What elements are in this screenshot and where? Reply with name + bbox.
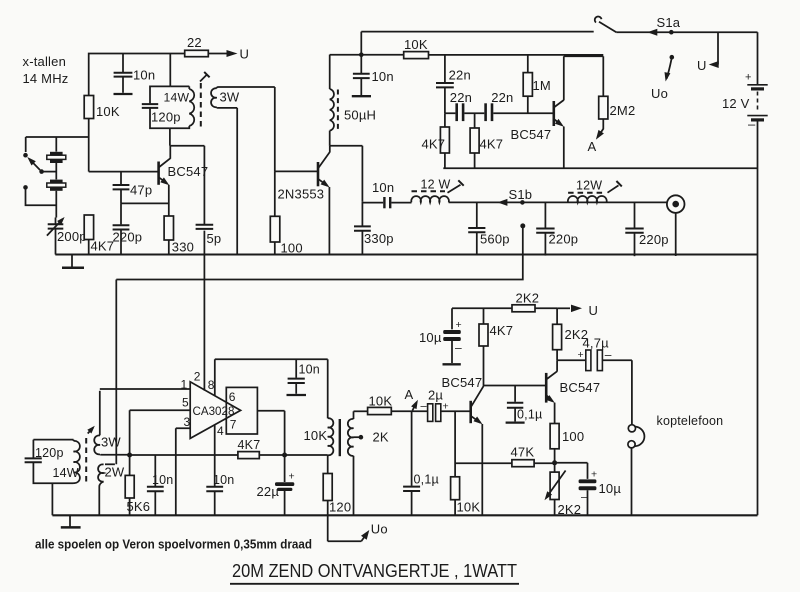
svg-text:2K2: 2K2 xyxy=(516,291,540,306)
wire pin5 line xyxy=(130,410,191,455)
svg-text:560p: 560p xyxy=(480,232,510,247)
capacitor 0,1µ (interstage) xyxy=(506,386,543,423)
svg-text:220p: 220p xyxy=(549,232,579,247)
wire to U arrow xyxy=(208,53,227,55)
resistor 5K6 xyxy=(125,455,150,515)
svg-text:10µ: 10µ xyxy=(599,481,622,496)
inductor 12W (filter 2) xyxy=(568,179,622,203)
svg-text:alle spoelen op Veron spoelvor: alle spoelen op Veron spoelvormen 0,35mm… xyxy=(35,537,312,552)
capacitor 22n (first) xyxy=(436,55,471,113)
svg-text:10n: 10n xyxy=(372,69,394,84)
node switch contact upper xyxy=(23,153,28,158)
svg-text:14W: 14W xyxy=(164,91,190,105)
svg-text:3: 3 xyxy=(184,415,191,429)
svg-text:CA3028: CA3028 xyxy=(193,405,235,418)
svg-text:1: 1 xyxy=(181,378,188,392)
capacitor 10µ electrolytic (rail) xyxy=(419,308,462,364)
svg-text:4K7: 4K7 xyxy=(480,137,504,152)
wire crystal top link xyxy=(26,137,89,152)
capacitor 220p (filter 1) xyxy=(536,202,578,255)
svg-text:22: 22 xyxy=(187,35,202,50)
resistor 120 xyxy=(323,455,351,541)
svg-text:Uo: Uo xyxy=(651,86,668,101)
wire 4K7 to ground xyxy=(88,240,90,255)
svg-text:A: A xyxy=(405,387,414,402)
svg-text:10n: 10n xyxy=(213,473,234,487)
antenna connector xyxy=(667,195,685,256)
svg-text:10K: 10K xyxy=(304,428,328,443)
wire tank feed top xyxy=(169,54,171,87)
svg-text:47K: 47K xyxy=(511,445,535,460)
node emitter junction xyxy=(552,460,557,465)
svg-text:120: 120 xyxy=(329,500,351,515)
svg-text:BC547: BC547 xyxy=(560,380,601,395)
transformer T1 primary 10K side xyxy=(304,359,334,455)
node output junction xyxy=(282,453,287,458)
svg-text:U: U xyxy=(697,58,707,73)
capacitor 10n (pin4) xyxy=(206,473,234,515)
svg-text:10n: 10n xyxy=(152,473,173,487)
svg-text:120p: 120p xyxy=(151,110,181,125)
resistor 4K7 (osc bias lower) xyxy=(84,215,114,254)
wire 3W bottom to ground xyxy=(236,108,238,255)
wire crystal bottom xyxy=(55,191,57,218)
svg-text:220p: 220p xyxy=(113,230,143,245)
svg-text:2M2: 2M2 xyxy=(610,103,636,118)
wire pin8 line xyxy=(215,359,328,396)
svg-text:+: + xyxy=(456,319,462,331)
wire keyer node line xyxy=(445,112,554,114)
svg-text:20M ZEND ONTVANGERTJE , 1WAT: 20M ZEND ONTVANGERTJE , 1WATT xyxy=(232,560,517,581)
resistor 100 (PA base) xyxy=(270,216,302,255)
capacitor 10n (RX agc) xyxy=(147,455,174,515)
resistor 2K2 variable (volume) xyxy=(545,463,582,517)
capacitor 22µ electrolytic xyxy=(257,455,295,515)
tank coil 14W with 120p (oscillator) xyxy=(142,86,194,145)
svg-text:S1b: S1b xyxy=(509,187,533,202)
svg-text:5: 5 xyxy=(182,396,189,410)
svg-text:120p: 120p xyxy=(35,446,64,460)
wire 330 to ground xyxy=(168,240,170,255)
resistor 10K (audio bias) xyxy=(451,411,481,515)
wire U branch (TX supply) xyxy=(697,32,719,73)
wire keyer collector top xyxy=(564,55,604,57)
inductor 12W (filter 1) xyxy=(411,178,463,203)
svg-text:12 V: 12 V xyxy=(722,96,750,111)
ground (RX rail symbol) xyxy=(61,515,81,527)
svg-text:12W: 12W xyxy=(576,179,602,193)
svg-text:U: U xyxy=(240,47,250,62)
resistor 4K7 (keyer left) xyxy=(422,113,450,168)
svg-text:220p: 220p xyxy=(639,232,669,247)
transistor Q3 BC547 (keyer) xyxy=(511,56,564,168)
node A (audio) xyxy=(405,387,418,411)
svg-text:BC547: BC547 xyxy=(442,375,483,390)
svg-text:8: 8 xyxy=(208,378,215,392)
pin labels CA3028 xyxy=(181,370,225,438)
wire audio interstage xyxy=(484,385,547,387)
wire 10K to base node xyxy=(88,119,90,172)
svg-text:22n: 22n xyxy=(449,68,471,83)
coil 2W (receiver) xyxy=(98,464,125,515)
svg-text:A: A xyxy=(588,139,597,154)
capacitor 10n (pin8 bypass) xyxy=(287,359,320,395)
wire audio rail xyxy=(452,307,557,309)
svg-text:7: 7 xyxy=(230,418,237,432)
capacitor 200p variable xyxy=(47,217,87,255)
wire 2µ to base xyxy=(441,410,471,412)
svg-text:2W: 2W xyxy=(105,465,125,480)
svg-text:5p: 5p xyxy=(207,231,222,246)
resistor 100 (output emitter) xyxy=(550,424,584,463)
svg-text:BC547: BC547 xyxy=(168,164,209,179)
svg-text:50µH: 50µH xyxy=(344,108,376,123)
svg-text:100: 100 xyxy=(562,429,584,444)
capacitor 47p (feedback) xyxy=(113,172,153,204)
resistor 10K (detector out) xyxy=(354,394,428,415)
text x-tallen 14 MHz xyxy=(23,54,69,86)
svg-text:5K6: 5K6 xyxy=(127,499,151,514)
svg-text:+: + xyxy=(591,469,597,481)
svg-text:10n: 10n xyxy=(133,68,155,83)
wire keyer rail xyxy=(429,54,604,56)
wire pin1 line xyxy=(100,388,190,390)
svg-text:330: 330 xyxy=(172,240,194,255)
svg-text:2K: 2K xyxy=(373,430,389,445)
svg-text:6: 6 xyxy=(229,390,236,404)
svg-text:1M: 1M xyxy=(533,78,551,93)
wire collector node out xyxy=(557,359,585,361)
wire 10n decoupling stub xyxy=(122,54,124,73)
wire pin2 line (osc injection via 5p) xyxy=(203,231,205,391)
headphone jack (koptelefoon) xyxy=(628,414,723,515)
svg-text:–: – xyxy=(455,341,462,355)
op-amp U1 CA3028 xyxy=(190,382,240,439)
wire filter line 1 xyxy=(449,201,667,203)
resistor 4K7 (keyer right) xyxy=(470,113,503,168)
svg-text:22n: 22n xyxy=(491,90,513,105)
wire CA3028 output xyxy=(257,411,284,455)
svg-text:U: U xyxy=(589,303,599,318)
resistor 1M xyxy=(523,55,551,113)
wire base line osc xyxy=(89,171,159,173)
wire osc collector to 5p xyxy=(170,146,204,225)
svg-text:14W: 14W xyxy=(53,466,79,480)
label 10n xyxy=(133,68,155,83)
node switch contact lower xyxy=(23,185,28,190)
svg-text:22µ: 22µ xyxy=(257,484,280,499)
svg-text:10K: 10K xyxy=(96,104,120,119)
transformer core xyxy=(339,419,341,456)
wire crystal chain top xyxy=(55,137,57,152)
wire keyer ground line xyxy=(443,167,757,169)
svg-text:4K7: 4K7 xyxy=(422,137,446,152)
resistor 22 xyxy=(185,35,209,57)
capacitor 5p (injection) xyxy=(196,146,222,246)
svg-text:2N3553: 2N3553 xyxy=(278,187,325,202)
svg-text:22n: 22n xyxy=(450,90,472,105)
svg-text:3W: 3W xyxy=(101,435,121,450)
wire between crystals xyxy=(55,163,57,179)
resistor 2M2 xyxy=(596,56,635,139)
capacitor 22n (third, series) xyxy=(484,90,513,121)
capacitor 4,7µ electrolytic (series) xyxy=(578,336,612,371)
switch S1b xyxy=(497,187,532,206)
svg-text:100: 100 xyxy=(281,241,303,256)
svg-text:10n: 10n xyxy=(372,180,394,195)
transistor Q1 BC547 (oscillator) xyxy=(159,146,209,216)
inductor 50µH xyxy=(330,55,376,146)
coupling core dashed (RX input transformer) xyxy=(86,426,95,483)
resistor 2K2 (audio rail, series) xyxy=(512,291,539,312)
svg-text:4K7: 4K7 xyxy=(91,239,115,254)
coil 3W (osc secondary) xyxy=(211,87,275,108)
resistor 10K (osc bias upper) xyxy=(84,96,120,120)
node RX input junction xyxy=(127,453,132,458)
svg-text:0,1µ: 0,1µ xyxy=(414,473,439,487)
wire right ground border xyxy=(757,255,759,516)
svg-text:4K7: 4K7 xyxy=(490,323,514,338)
resistor 10K (keyer rail) xyxy=(361,37,428,59)
svg-text:10K: 10K xyxy=(457,500,481,515)
svg-text:2: 2 xyxy=(194,370,201,384)
switch S1a xyxy=(595,15,758,36)
svg-text:+: + xyxy=(289,471,295,483)
resistor 4K7 (CA3028 feed) xyxy=(238,438,261,459)
wire 3W top to PA base xyxy=(274,87,276,171)
coupling core dashed (osc transformer) xyxy=(200,72,210,129)
wire PA collector node xyxy=(330,146,363,202)
capacitor 10n (PA supply) xyxy=(352,55,394,96)
svg-text:koptelefoon: koptelefoon xyxy=(657,414,724,428)
resistor 330 (emitter) xyxy=(164,216,194,255)
crystal X2 xyxy=(47,180,66,191)
capacitor 10µ electrolytic (bypass) xyxy=(579,463,622,516)
svg-text:0,1µ: 0,1µ xyxy=(517,408,542,422)
wire PA base line xyxy=(275,170,318,172)
capacitor 330p xyxy=(354,202,394,255)
svg-text:10K: 10K xyxy=(404,37,428,52)
wire pin4 line xyxy=(214,425,216,486)
battery 12V xyxy=(722,32,768,254)
transistor Q5 BC547 (audio out) xyxy=(546,360,600,423)
wire pin3 line xyxy=(176,428,190,515)
wire receive input line xyxy=(116,226,523,464)
transistor Q4 BC547 (audio 1) xyxy=(442,346,484,515)
capacitor 10n (osc supply) xyxy=(114,73,133,93)
svg-text:4K7: 4K7 xyxy=(238,438,261,452)
wire RX bias line xyxy=(130,454,328,456)
wire lower contact stub xyxy=(26,187,57,205)
coil 3W (receiver) xyxy=(94,391,129,455)
capacitor 560p xyxy=(468,202,510,255)
svg-text:47p: 47p xyxy=(130,183,152,198)
title 20M ZEND ONTVANGERTJE 1WATT xyxy=(230,560,519,584)
node A (keying line) xyxy=(588,139,597,154)
ground (10n) xyxy=(114,93,133,95)
capacitor 2µ electrolytic (series) xyxy=(421,388,449,422)
wire ground rail main xyxy=(55,253,757,255)
svg-text:200p: 200p xyxy=(57,229,87,244)
node S1b receive contact xyxy=(520,223,525,228)
svg-text:BC547: BC547 xyxy=(511,127,552,142)
svg-text:10K: 10K xyxy=(369,394,393,409)
note alle spoelen xyxy=(35,537,312,552)
svg-text:14 MHz: 14 MHz xyxy=(23,71,69,86)
resistor 47K (feedback) xyxy=(455,445,554,467)
svg-text:S1a: S1a xyxy=(657,15,681,30)
node U (supply arrow) xyxy=(227,47,250,62)
svg-text:12 W: 12 W xyxy=(421,178,451,192)
tank coil 14W with 120p (receiver) xyxy=(25,440,80,516)
svg-text:+: + xyxy=(578,349,584,361)
node U (audio supply arrow) xyxy=(557,303,598,318)
transformer T1 secondary 2K side xyxy=(348,411,389,515)
crystal X1 xyxy=(47,152,66,163)
svg-text:Uo: Uo xyxy=(371,522,388,537)
svg-text:4: 4 xyxy=(217,424,224,438)
wire top rail to S1a xyxy=(361,31,593,33)
svg-text:3W: 3W xyxy=(220,90,240,105)
svg-text:–: – xyxy=(581,492,588,504)
wire RX ground rail xyxy=(52,514,757,516)
wire 100 stubs xyxy=(274,171,276,254)
node supply junction xyxy=(330,32,364,57)
wire to headphone xyxy=(602,360,632,424)
capacitor 220p (filter 2) xyxy=(625,202,668,256)
capacitor 0,1µ (A node) xyxy=(403,411,439,515)
svg-text:+: + xyxy=(745,72,752,84)
svg-text:2K2: 2K2 xyxy=(558,502,582,517)
switch arm (crystal selector) xyxy=(27,157,56,174)
svg-text:10n: 10n xyxy=(299,363,320,377)
capacitor 22n (second, series) xyxy=(450,90,472,121)
svg-text:–: – xyxy=(421,401,428,413)
capacitor 10n (PA coupling, series) xyxy=(362,180,411,208)
svg-text:330p: 330p xyxy=(364,231,394,246)
wire top rail oscillator xyxy=(89,54,185,96)
svg-text:x-tallen: x-tallen xyxy=(23,54,67,69)
resistor 2K2 (output collector) xyxy=(553,308,589,360)
wire to 10µ xyxy=(555,462,588,464)
wire emitter node xyxy=(121,202,169,204)
capacitor 220p (feedback) xyxy=(113,203,143,254)
transistor Q2 2N3553 (PA) xyxy=(278,146,330,255)
pins 6 7 box CA3028 xyxy=(226,387,257,434)
node Uo branch (RX supply) xyxy=(651,55,674,101)
node Uo output tap xyxy=(328,522,388,542)
svg-text:–: – xyxy=(748,117,756,132)
ground (main rail symbol) xyxy=(62,255,84,268)
resistor 4K7 (audio collector) xyxy=(479,308,513,346)
svg-text:10µ: 10µ xyxy=(419,330,442,345)
